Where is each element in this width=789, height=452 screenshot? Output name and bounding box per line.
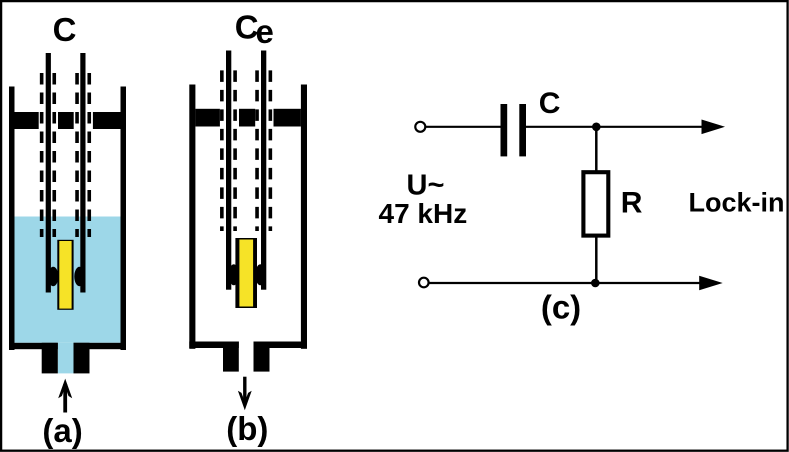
cell (b): outlet stem right block: [254, 342, 270, 372]
cell (b): lid bar right segment: [274, 109, 301, 127]
cell (a): inflow arrow: [58, 379, 72, 413]
cell (a): bottom plate right segment: [74, 343, 127, 349]
circuit: bottom wire: [429, 282, 703, 284]
cell (b): dashed guard tube line 2: [233, 70, 237, 231]
cell (b): crystal outline: [235, 238, 257, 308]
cell (b): dashed guard tube line 1: [220, 70, 224, 231]
cell (b): outflow arrow: [238, 377, 252, 411]
cell (b): right contact blob: [255, 264, 265, 285]
cell (b): lid bar middle segment: [239, 109, 255, 127]
circuit: source terminal top (open circle): [415, 122, 425, 132]
svg-text:C: C: [539, 87, 561, 120]
svg-text:e: e: [256, 13, 274, 50]
cell (b): outlet stem left block: [223, 342, 239, 372]
cell (b): bottom plate right segment: [254, 342, 308, 349]
cell (a): left electrode lead: [46, 53, 51, 293]
circuit: source terminal bottom (open circle): [419, 278, 429, 288]
cell (b): left contact blob: [229, 264, 239, 285]
circuit: capacitor C right plate: [519, 104, 526, 156]
cell (b): lid bar left segment: [195, 109, 220, 127]
cell (a): lid bar middle segment: [58, 112, 74, 129]
cell (a): lid bar right segment: [93, 112, 121, 129]
cell (b): dashed guard tube line 3: [255, 70, 259, 231]
svg-text:Lock-in: Lock-in: [689, 188, 785, 218]
cell (a): lid bar left segment: [15, 112, 39, 129]
cell (a): left wall: [9, 87, 15, 351]
cell (b): bottom plate left segment: [189, 342, 239, 349]
circuit: node bottom junction: [591, 279, 600, 288]
circuit: wire resistor to bottom junction: [595, 236, 598, 283]
cell (b): right wall: [301, 85, 307, 349]
circuit: top wire right segment: [526, 126, 705, 128]
svg-text:(a): (a): [42, 412, 82, 449]
cell (a): outlet stem left block: [42, 343, 58, 374]
cell (b): left wall: [189, 85, 195, 349]
cell (a): right wall: [121, 87, 127, 351]
cell (a): outlet stem right block: [74, 343, 90, 374]
circuit: wire junction to resistor: [595, 127, 598, 172]
cell (a): crystal (yellow quartz plate): [59, 241, 71, 309]
cell (b): dashed guard tube line 4: [269, 70, 273, 231]
circuit: resistor R body: [583, 172, 608, 235]
cell (a): bottom plate left segment: [9, 343, 58, 349]
circuit: top wire left segment: [426, 126, 501, 128]
cell (b): left electrode lead: [226, 51, 231, 290]
circuit: top output arrowhead: [702, 120, 726, 135]
cell (a): crystal outline: [57, 240, 73, 310]
cell (b): right electrode lead: [261, 51, 266, 290]
cell (a): right contact blob: [74, 267, 84, 286]
cell (a): right electrode lead: [80, 53, 85, 293]
svg-text:(c): (c): [541, 289, 581, 326]
circuit: bottom output arrowhead: [699, 276, 723, 291]
svg-text:C: C: [53, 11, 77, 48]
circuit: node top junction: [592, 123, 601, 132]
cell (a): liquid (light blue): [15, 217, 121, 374]
cell (b): crystal (yellow quartz plate): [239, 240, 253, 307]
cell (a): dashed guard tube line 2: [52, 73, 56, 237]
circuit: capacitor C left plate: [501, 104, 508, 156]
cell (a): left contact blob: [48, 267, 58, 286]
svg-text:(b): (b): [226, 410, 268, 447]
cell (a): dashed guard tube line 4: [87, 73, 91, 237]
svg-text:47 kHz: 47 kHz: [379, 198, 468, 229]
cell (a): dashed guard tube line 1: [40, 73, 44, 237]
svg-text:U~: U~: [407, 170, 445, 202]
svg-text:R: R: [621, 186, 643, 219]
cell (a): dashed guard tube line 3: [75, 73, 79, 237]
